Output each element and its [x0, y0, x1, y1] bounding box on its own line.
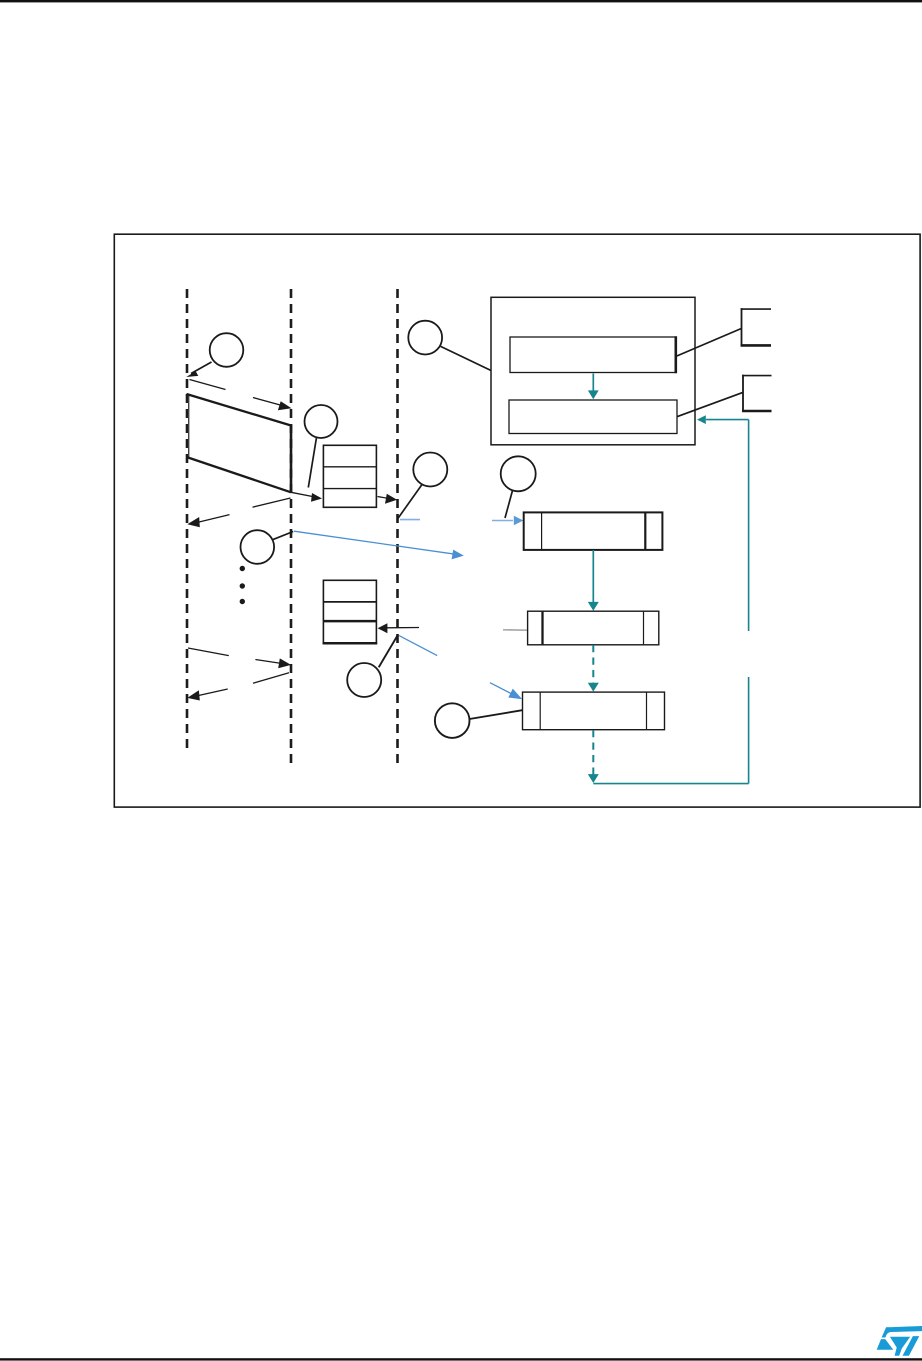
bracket box R2 [742, 375, 771, 412]
three dots ellipsis [240, 566, 245, 604]
leader from C7 to box C [470, 710, 523, 719]
bottom page rule [0, 1358, 922, 1360]
teal dashed arrow box B to box C [588, 645, 599, 692]
leader from C1 with arrowhead to lifeline 1 [186, 362, 211, 377]
figure frame [114, 234, 920, 807]
leader inner rect2 to bracket box R2 [677, 393, 743, 417]
inner rect 2 [509, 400, 677, 434]
inner rect 1 bold right edge [674, 336, 677, 373]
leader inner rect1 to bracket box R1 [677, 329, 742, 357]
callout circle C7 [435, 703, 470, 738]
callout circle C1 [210, 333, 244, 367]
arrow into table 2 from right [378, 623, 419, 633]
leader from C4 [505, 491, 513, 519]
lifeline 3 [396, 289, 399, 766]
teal return path vertical upper segment [748, 420, 750, 631]
leader from C8 to lifeline 3 [379, 635, 398, 668]
long blue arrow from lifeline2 [294, 531, 464, 559]
inner rect 1 [510, 337, 676, 373]
callout circle C2 [305, 405, 338, 438]
teal arrow inner rect1 to inner rect2 [588, 374, 599, 400]
callout circle C5 [240, 530, 274, 564]
ST logo [877, 1326, 922, 1356]
teal return path bottom horizontal [593, 783, 748, 785]
light blue arrow into process box A [492, 516, 523, 526]
process box A [524, 512, 663, 550]
table 2 [323, 580, 378, 643]
gray line into box B [503, 629, 528, 631]
process box B [528, 611, 659, 645]
teal return path vertical lower segment [748, 677, 750, 784]
bracket box R1 [741, 308, 771, 346]
lifeline 1 [186, 289, 189, 754]
callout circle C8 [347, 663, 381, 697]
message arrow M4 (lifeline2 to lifeline1) [187, 673, 289, 701]
teal return path top horizontal with arrowhead into big box [697, 415, 749, 424]
blue arrow from lifeline3 to box C [399, 636, 522, 700]
parallelogram left edge ghost on lifeline 1 [188, 394, 190, 457]
lifeline 2 [290, 289, 293, 766]
leader from C5 to blue arrow start [272, 532, 293, 540]
short light blue line right of lifeline 3 [400, 519, 420, 521]
leader from C6 to lifeline 3 [398, 485, 423, 520]
big box (top right) [491, 297, 695, 445]
parallelogram bottom edge arrow into table 1 [187, 457, 323, 502]
top page rule [0, 0, 922, 2]
process box C [523, 692, 665, 730]
message arrow M2 (lifeline2 to lifeline1) [187, 498, 290, 527]
callout circle C3 [408, 321, 442, 355]
callout circle C4 [501, 456, 536, 491]
parallelogram right edge on lifeline 2 [290, 425, 293, 493]
teal dashed arrow from box C down [588, 730, 599, 783]
arrow table1 to lifeline 3 [378, 494, 398, 504]
table 1 [323, 445, 376, 507]
callout circle C6 [413, 453, 447, 487]
teal arrow box A to box B [588, 550, 599, 611]
leader from C3 to big box [441, 346, 491, 370]
leader from C2 [308, 438, 316, 488]
parallelogram top edge [187, 394, 292, 426]
message arrow M1 (lifeline1 to lifeline2) [190, 380, 292, 411]
message arrow M3 (lifeline1 to lifeline2) [188, 648, 291, 668]
